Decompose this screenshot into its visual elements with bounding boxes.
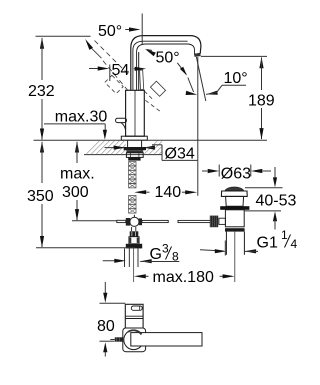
svg-text:G: G (150, 246, 162, 263)
svg-text:232: 232 (28, 83, 55, 100)
svg-text:max.180: max.180 (153, 269, 214, 286)
svg-text:Ø63: Ø63 (221, 166, 251, 183)
svg-text:350: 350 (27, 188, 54, 205)
svg-text:4: 4 (291, 237, 298, 251)
svg-text:40-53: 40-53 (256, 193, 297, 210)
svg-text:300: 300 (62, 184, 89, 201)
svg-text:50°: 50° (156, 50, 180, 67)
svg-text:G1: G1 (257, 235, 278, 252)
svg-text:50°: 50° (98, 23, 122, 40)
svg-text:1: 1 (281, 228, 288, 242)
svg-text:189: 189 (248, 93, 275, 110)
svg-text:max.: max. (60, 166, 95, 183)
svg-text:54: 54 (112, 62, 130, 79)
svg-text:140: 140 (155, 184, 182, 201)
svg-text:8: 8 (172, 250, 179, 264)
svg-text:max.30: max.30 (55, 109, 108, 126)
svg-text:Ø34: Ø34 (165, 146, 195, 163)
svg-text:10°: 10° (224, 70, 248, 87)
svg-text:80: 80 (97, 318, 115, 335)
